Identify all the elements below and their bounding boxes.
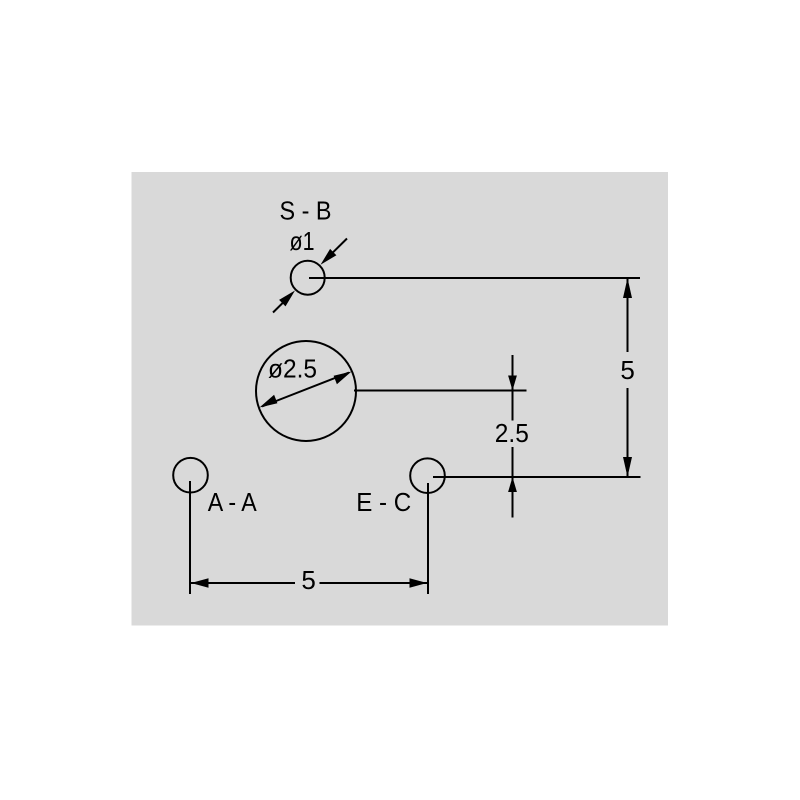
svg-text:5: 5: [301, 565, 315, 595]
leader arrow lower-left pointing at S-B hole: [273, 291, 295, 313]
hole A-A: [173, 458, 208, 493]
wire: reference line from S-B hole to right: [309, 277, 640, 279]
svg-text:2.5: 2.5: [495, 418, 529, 448]
leader arrow upper-right pointing at S-B hole: [321, 239, 348, 265]
dimension 5 vertical at right: [620, 278, 634, 477]
hole center (big circle ø2.5): [256, 341, 356, 441]
hole S-B (small circle, pin S/B): [291, 261, 325, 295]
hole E-C: [410, 458, 445, 493]
extension line down from A-A hole: [189, 481, 191, 594]
svg-text:E - C: E - C: [356, 487, 411, 517]
svg-text:ø1: ø1: [290, 226, 315, 256]
gray drawing panel: [132, 172, 669, 626]
svg-text:S - B: S - B: [280, 196, 332, 226]
svg-text:ø2.5: ø2.5: [268, 354, 317, 384]
svg-text:5: 5: [620, 355, 634, 385]
diameter arrow inside big circle: [260, 372, 352, 408]
dimension 2.5 vertical: [495, 355, 529, 518]
extension line down from E-C hole: [427, 483, 429, 594]
svg-text:A - A: A - A: [208, 487, 258, 517]
wire: reference line from big circle to 2.5 dimension: [354, 390, 527, 392]
dimension 5 horizontal between A-A and E-C: [191, 565, 427, 595]
wire: reference line from E-C hole to right: [433, 476, 641, 478]
